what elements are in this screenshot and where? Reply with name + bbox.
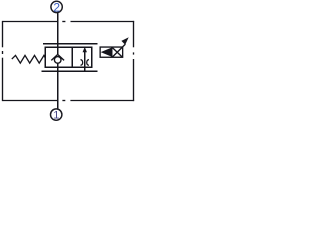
envelope bottom border (dash-dot) [3,100,135,102]
solenoid U1 box [100,47,123,57]
port 2 rail wire [43,43,98,45]
solenoid triangle [101,48,112,57]
valve body envelope [45,47,91,67]
svg-text:1: 1 [53,110,59,122]
envelope left border (dash-dot) [2,21,4,101]
envelope top border (dash-dot) [3,21,135,23]
spring [12,55,46,63]
flow arrowhead [83,47,87,52]
port 1 stem wire [57,63,59,108]
port 2 stem wire [57,13,59,54]
orifice right arc [87,60,89,66]
solenoid divider [111,47,113,57]
solenoid X diagonal [112,48,122,57]
check valve seat [51,54,64,60]
envelope right border (dash-dot) [133,21,135,101]
orifice left arc [81,60,83,66]
valve position divider [71,47,73,67]
throttled flow path shaft [84,51,86,72]
port 2 circle [51,1,62,12]
proportional arrow shaft [112,44,125,57]
port 1 circle [51,109,62,120]
port 1 rail wire [42,70,98,72]
svg-text:2: 2 [53,0,60,14]
proportional arrowhead [121,37,128,44]
check valve ball [54,57,61,64]
